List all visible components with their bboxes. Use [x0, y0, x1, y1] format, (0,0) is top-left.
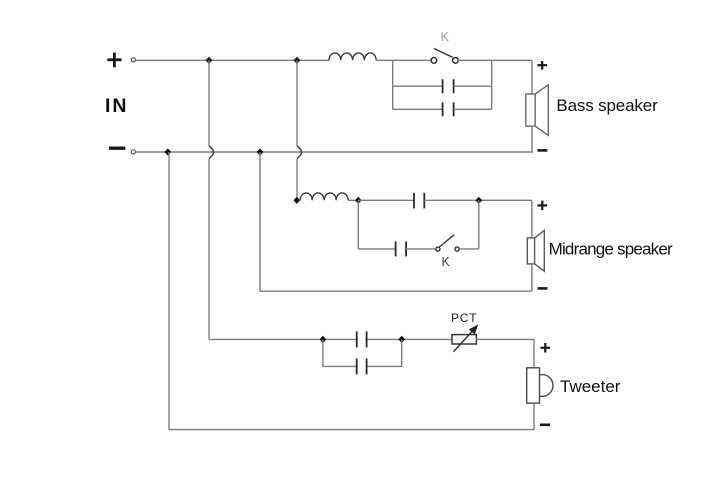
wire midrange feed vertical lower	[296, 159, 298, 201]
node midrange feed on plus rail	[294, 57, 301, 64]
node tweeter feed on plus rail	[206, 57, 213, 64]
node tweeter cap left	[320, 336, 327, 343]
wire L2 to node	[348, 199, 358, 201]
node midrange join	[475, 197, 482, 204]
wire bass speaker vertical top	[531, 60, 533, 94]
wire bass cap network right vertical	[491, 60, 493, 109]
capacitor C2 bass	[443, 102, 454, 116]
wire midrange top path right	[424, 199, 532, 201]
switch K2	[436, 235, 459, 252]
node tweeter cap right	[398, 336, 405, 343]
wire switch K1 to bass speaker	[458, 59, 532, 61]
wire hop midrange feed over minus rail	[297, 146, 302, 159]
wire midrange speaker vertical top	[531, 200, 533, 238]
wire midrange top path left	[358, 199, 414, 201]
capacitor C6 tweeter bottom	[357, 358, 367, 374]
wire tweeter vertical bottom and bottom rail	[169, 152, 534, 430]
wire bass C2 row left	[393, 108, 443, 110]
wire bass C2 row right	[454, 108, 492, 110]
wire midrange speaker vertical bottom	[531, 264, 533, 291]
wire L1 to switch K1	[376, 59, 431, 61]
bass speaker symbol	[526, 85, 549, 136]
wire hop tweeter feed over minus rail	[209, 146, 214, 159]
node tweeter return on minus rail	[164, 148, 171, 155]
wire tweeter feed vertical upper	[208, 60, 210, 146]
node midrange split	[355, 197, 362, 204]
wire tweeter feed vertical lower	[208, 159, 210, 340]
label midrange speaker minus	[538, 287, 548, 290]
label bass speaker minus	[537, 149, 547, 152]
wire C5 gap mask	[358, 338, 365, 340]
capacitor C5 tweeter top	[357, 331, 367, 347]
wire midrange bottom branch to C4	[358, 248, 395, 250]
wire plus rail	[136, 59, 329, 61]
node midrange inductor input	[293, 197, 300, 204]
label midrange speaker plus	[538, 201, 548, 211]
wire midrange bottom branch left vertical	[357, 200, 359, 249]
wire minus rail	[136, 151, 533, 153]
wire tweeter bottom branch	[323, 339, 402, 366]
tweeter symbol	[527, 368, 553, 403]
terminal circle minus	[131, 150, 135, 154]
node midrange return on minus rail	[257, 148, 264, 155]
label bass speaker plus	[537, 61, 547, 70]
PTC resistor RT1	[452, 326, 477, 352]
wire bass C1 row left	[393, 85, 443, 87]
input terminal minus symbol	[109, 146, 125, 149]
switch K1	[431, 49, 458, 64]
wire tweeter vertical top	[533, 339, 535, 367]
capacitor C3 midrange	[414, 193, 424, 209]
label tweeter plus	[541, 343, 551, 353]
wire tweeter row from feed	[209, 338, 452, 340]
wire bass speaker vertical bottom	[531, 126, 533, 152]
svg-text:K: K	[442, 255, 451, 269]
wire midrange right vertical	[478, 200, 480, 249]
svg-text:Bass speaker: Bass speaker	[556, 96, 658, 115]
svg-text:Tweeter: Tweeter	[560, 377, 621, 396]
svg-text:PCT: PCT	[451, 311, 477, 325]
midrange speaker symbol	[527, 230, 544, 271]
wire midrange feed vertical upper	[296, 60, 298, 146]
svg-text:Midrange speaker: Midrange speaker	[549, 239, 673, 258]
wire switch K2 to right vertical	[459, 248, 479, 250]
inductor L2 midrange	[300, 193, 348, 200]
svg-text:K: K	[441, 30, 450, 44]
capacitor C4 midrange	[396, 241, 407, 256]
wire bass cap network left vertical	[392, 60, 394, 109]
terminal circle plus	[131, 58, 135, 62]
capacitor C1 bass	[443, 79, 454, 93]
wire PTC to tweeter	[476, 338, 534, 340]
label tweeter minus	[540, 423, 550, 426]
svg-text:IN: IN	[105, 95, 129, 117]
wire midrange bottom rail	[260, 152, 532, 291]
wire bass C1 row right	[454, 85, 492, 87]
inductor L1 bass	[329, 53, 376, 60]
input terminal plus symbol	[107, 53, 121, 68]
wire C4 to switch K2	[406, 248, 436, 250]
